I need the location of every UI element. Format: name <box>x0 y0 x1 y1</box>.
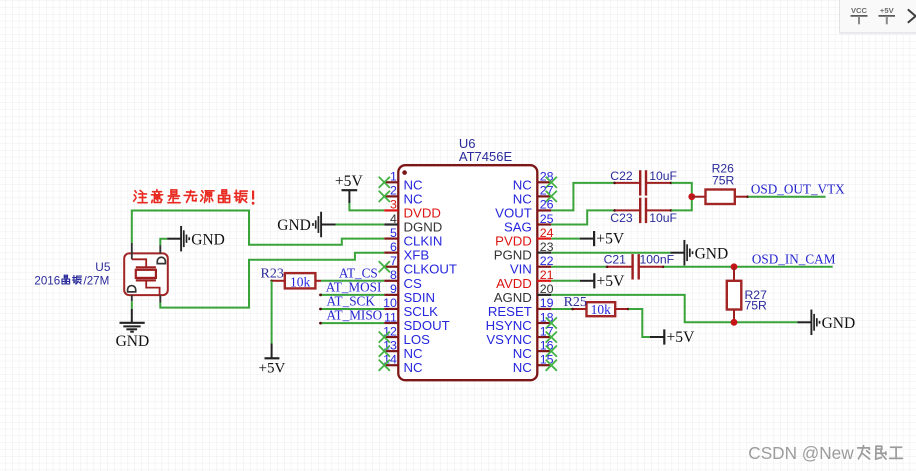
svg-text:RESET: RESET <box>488 304 532 319</box>
wire: U6 pin 19 RESET to R25 <box>551 308 572 310</box>
svg-text:5: 5 <box>390 226 397 240</box>
wire: U6 pin 21 AVDD to +5V <box>551 280 580 282</box>
svg-text:3: 3 <box>390 198 397 212</box>
svg-text:CS: CS <box>404 276 423 291</box>
resistor R25 10k <box>572 308 586 310</box>
crystal pin stub bottom-left <box>131 295 133 301</box>
svg-text:75R: 75R <box>745 299 768 313</box>
svg-text:PGND: PGND <box>494 248 532 263</box>
ground symbol (crystal top) <box>167 238 181 240</box>
svg-text:CSDN @New: CSDN @New <box>748 443 854 463</box>
svg-text:NC: NC <box>404 191 424 206</box>
svg-text:+5V: +5V <box>597 273 626 290</box>
U6 pin 8 (CS) <box>384 280 398 282</box>
wire: C23 to R26 junction <box>672 197 692 211</box>
svg-text:DVDD: DVDD <box>404 205 441 220</box>
svg-text:SDOUT: SDOUT <box>404 318 450 333</box>
svg-text:6: 6 <box>390 240 397 254</box>
svg-text:7: 7 <box>390 254 397 268</box>
svg-text:GND: GND <box>116 333 150 350</box>
wire: U6 pin 22 VIN to C21 <box>551 266 606 268</box>
svg-text:1: 1 <box>390 170 397 184</box>
U6 pin 27 (NC) <box>537 195 551 197</box>
crystal U5 2016/27M <box>124 253 168 295</box>
annotation text: 注意是无源晶振! (note: passive crystal) <box>134 190 255 205</box>
svg-text:/27M: /27M <box>84 274 110 287</box>
resistor R23 10k <box>272 280 285 282</box>
svg-text:+5V: +5V <box>259 361 286 377</box>
wire: crystal pin1 to U6 pin 5 CLKIN <box>132 211 384 245</box>
U6 pin 24 (PVDD) <box>537 237 551 239</box>
power +5V (U6 pin 24) <box>580 238 594 240</box>
ground symbol (U6 pin 23) <box>671 252 685 254</box>
earth ground below crystal <box>131 309 133 323</box>
svg-text:11: 11 <box>384 310 397 324</box>
svg-text:9: 9 <box>390 282 397 296</box>
svg-text:R23: R23 <box>261 267 284 282</box>
svg-text:10k: 10k <box>290 274 311 289</box>
U6 pin 13 (NC) <box>384 350 398 352</box>
crystal pin stub bottom-right <box>159 295 161 302</box>
wire: AT_MOSI to U6 pin 9 SDIN <box>320 294 384 296</box>
power +5V (U6 pin 21) <box>580 280 594 282</box>
wire: AT_SCK to U6 pin 10 SCLK <box>320 308 384 310</box>
crystal pin stub top-left <box>131 243 133 253</box>
toolbar VCC power icon <box>851 6 868 24</box>
wire: R25 to +5V <box>629 309 650 337</box>
resistor R26 75R <box>692 196 706 198</box>
toolbar +5V power icon <box>879 6 896 24</box>
svg-text:VSYNC: VSYNC <box>486 332 532 347</box>
svg-text:DGND: DGND <box>404 220 443 235</box>
svg-text:+5V: +5V <box>667 329 696 346</box>
U6 pin 28 (NC) <box>537 181 551 183</box>
watermark CSDN @New农民工 <box>748 443 902 463</box>
svg-text:OSD_IN_CAM: OSD_IN_CAM <box>752 251 836 266</box>
wire: GND to U6 pin 4 <box>336 224 385 226</box>
resistor R27 75R <box>733 267 735 281</box>
wire: crystal pin4 to earth ground <box>131 301 133 309</box>
U6 pin 19 (RESET) <box>537 308 551 310</box>
svg-text:AT_SCK: AT_SCK <box>327 294 376 309</box>
svg-text:NC: NC <box>513 191 533 206</box>
svg-text:C23: C23 <box>610 211 633 225</box>
svg-text:75R: 75R <box>712 174 735 188</box>
U6 pin 4 (DGND) <box>384 223 398 225</box>
junction (C21/R27/OSD_IN_CAM) <box>731 263 738 270</box>
wire: crystal pin2 to GND <box>160 239 167 245</box>
svg-text:NC: NC <box>404 177 424 192</box>
wire: U6 pin 23 PGND to GND <box>551 252 670 254</box>
U6 pin 18 (HSYNC) <box>537 322 551 324</box>
svg-text:AVDD: AVDD <box>496 276 532 291</box>
svg-text:8: 8 <box>390 268 397 282</box>
ground symbol (U6 pin 4 DGND) <box>320 212 322 238</box>
power +5V (R25 pull-up) <box>650 336 664 338</box>
svg-text:C22: C22 <box>610 169 633 183</box>
svg-text:XFB: XFB <box>404 248 430 263</box>
U6 pin 5 (CLKIN) <box>384 237 398 239</box>
svg-text:SCLK: SCLK <box>404 304 439 319</box>
svg-text:2: 2 <box>390 184 397 198</box>
svg-text:VIN: VIN <box>510 262 532 277</box>
svg-text:SAG: SAG <box>504 220 532 235</box>
svg-text:+5V: +5V <box>880 6 895 15</box>
svg-text:10uF: 10uF <box>649 169 677 183</box>
wire: U6 pin 25 SAG to C23 <box>551 210 614 224</box>
wire: C21 to OSD_IN_CAM / R27 <box>664 266 833 268</box>
U6 pin 23 (PGND) <box>537 252 551 254</box>
svg-text:AGND: AGND <box>494 290 532 305</box>
svg-text:C21: C21 <box>604 252 627 266</box>
U6 pin 14 (NC) <box>384 364 398 366</box>
capacitor C23 10uF <box>614 209 640 211</box>
IC U6 AT7456E body <box>398 165 537 380</box>
svg-text:NC: NC <box>513 346 533 361</box>
U6 pin 12 (LOS) <box>384 336 398 338</box>
svg-text:VCC: VCC <box>851 6 868 15</box>
svg-text:NC: NC <box>404 346 424 361</box>
wire: C22 to R26 junction <box>672 183 692 197</box>
svg-text:OSD_OUT_VTX: OSD_OUT_VTX <box>751 181 845 196</box>
U6 pin 3 (DVDD) <box>384 209 398 211</box>
junction (R27 bottom / GND rail) <box>731 319 738 326</box>
power +5V (below R23) <box>271 343 273 358</box>
svg-text:GND: GND <box>695 245 729 262</box>
U6 pin-1 indicator dot <box>402 170 407 175</box>
capacitor C22 10uF <box>614 182 640 184</box>
U6 pin 7 (CLKOUT) <box>384 266 398 268</box>
wire: R23 to +5V <box>271 281 273 344</box>
svg-text:AT7456E: AT7456E <box>459 149 513 164</box>
svg-text:10: 10 <box>383 296 397 310</box>
U6 pin 9 (SDIN) <box>384 294 398 296</box>
U6 pin 10 (SCLK) <box>384 308 398 310</box>
U6 pin 2 (NC) <box>384 195 398 197</box>
svg-text:LOS: LOS <box>404 332 431 347</box>
svg-text:GND: GND <box>191 231 225 248</box>
wire: R23 to U6 pin 8 CS <box>321 280 384 282</box>
svg-text:SDIN: SDIN <box>404 290 436 305</box>
svg-text:VOUT: VOUT <box>495 205 532 220</box>
U6 pin 22 (VIN) <box>537 266 551 268</box>
svg-text:R25: R25 <box>564 295 587 310</box>
junction (C22/C23/R26) <box>688 193 695 200</box>
wire: crystal pin3 to U6 pin 6 XFB <box>160 253 384 308</box>
svg-text:GND: GND <box>822 315 856 332</box>
svg-text:+5V: +5V <box>335 173 364 190</box>
toolbar expand chevron <box>908 9 916 22</box>
svg-text:U5: U5 <box>95 260 111 274</box>
U6 pin 1 (NC) <box>384 181 398 183</box>
U6 pin 16 (NC) <box>537 350 551 352</box>
svg-text:NC: NC <box>513 177 533 192</box>
U6 pin 26 (VOUT) <box>537 209 551 211</box>
capacitor C21 100nF <box>607 266 633 268</box>
U6 pin 11 (SDOUT) <box>384 322 398 324</box>
svg-text:CLKOUT: CLKOUT <box>404 262 458 277</box>
svg-text:AT_MOSI: AT_MOSI <box>326 279 382 294</box>
svg-text:AT_CS: AT_CS <box>339 265 378 280</box>
ground symbol (right GND rail) <box>798 321 812 323</box>
U6 pin 25 (SAG) <box>537 223 551 225</box>
floating toolbar panel <box>840 0 916 34</box>
svg-text:4: 4 <box>390 212 397 226</box>
svg-text:NC: NC <box>513 360 533 375</box>
crystal pin stub top-right <box>159 245 161 253</box>
U6 pin 20 (AGND) <box>537 294 551 296</box>
svg-text:AT_MISO: AT_MISO <box>327 308 383 323</box>
svg-text:PVDD: PVDD <box>495 234 532 249</box>
wire: U6 pin 26 VOUT to C22 <box>551 183 614 211</box>
svg-text:HSYNC: HSYNC <box>486 318 533 333</box>
U6 pin 21 (AVDD) <box>537 280 551 282</box>
svg-text:GND: GND <box>277 217 311 234</box>
wire: +5V to U6 pin 3 <box>349 203 384 210</box>
svg-text:+5V: +5V <box>596 231 625 248</box>
svg-text:10k: 10k <box>591 302 612 317</box>
svg-text:CLKIN: CLKIN <box>404 234 443 249</box>
wire: R26 to OSD_OUT_VTX <box>748 196 825 198</box>
wire: U6 pin 24 PVDD to +5V <box>551 238 579 240</box>
U6 pin 17 (VSYNC) <box>537 336 551 338</box>
svg-text:NC: NC <box>404 360 424 375</box>
svg-text:10uF: 10uF <box>649 211 677 225</box>
U6 pin 15 (NC) <box>537 364 551 366</box>
wire: AT_MISO to U6 pin 11 SDOUT <box>320 322 384 324</box>
svg-text:100nF: 100nF <box>640 252 675 266</box>
crystal U5 value label 2016晶振/27M <box>34 274 109 287</box>
wire: U6 pin 20 AGND to GND rail <box>551 295 797 322</box>
svg-text:2016: 2016 <box>34 274 60 287</box>
U6 pin 6 (XFB) <box>384 252 398 254</box>
